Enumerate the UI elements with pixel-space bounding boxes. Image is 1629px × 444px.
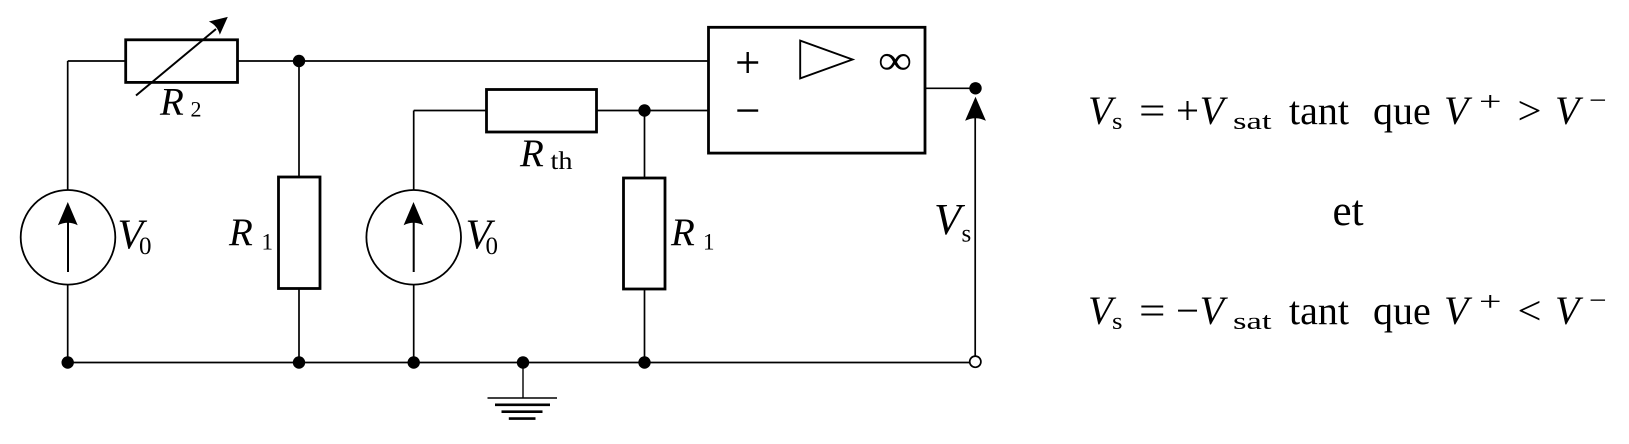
svg-text:tant: tant — [1289, 288, 1349, 333]
ground stub — [522, 363, 524, 399]
resistor R1 (right) body — [624, 178, 666, 289]
open terminal circle — [970, 356, 981, 367]
node bottom ground junction — [517, 356, 529, 368]
svg-text:et: et — [1333, 188, 1364, 235]
svg-text:V: V — [1200, 288, 1229, 333]
node bottom under source V0 middle — [408, 356, 420, 368]
svg-text:0: 0 — [139, 233, 152, 260]
current source V0 (middle) circle — [366, 190, 461, 285]
svg-text:<: < — [1518, 288, 1542, 333]
svg-text:s: s — [962, 221, 972, 248]
op-amp triangle — [800, 41, 852, 79]
svg-text:V: V — [1555, 288, 1584, 333]
equation line 1 — [1088, 85, 1607, 135]
current source V0 (left) circle — [21, 190, 116, 285]
svg-text:0: 0 — [486, 233, 499, 260]
wire R1 bottom to ground rail — [298, 289, 300, 363]
wire Rth to op-amp - input — [597, 110, 710, 112]
svg-text:sat: sat — [1233, 109, 1272, 135]
svg-text:V: V — [1555, 88, 1584, 133]
ground bar 4 — [509, 417, 536, 420]
resistor R2 wiper arrowhead — [209, 10, 233, 34]
node A (R2 / R1 junction) — [293, 55, 305, 67]
wire node A down to R1 — [298, 61, 300, 178]
svg-text:=: = — [1139, 288, 1166, 333]
svg-text:1: 1 — [703, 230, 715, 255]
svg-text:∞: ∞ — [878, 37, 912, 83]
svg-text:=: = — [1139, 88, 1166, 133]
current source V0 (left) arrow shaft — [67, 216, 69, 272]
svg-text:R: R — [228, 211, 253, 254]
svg-text:que: que — [1373, 88, 1431, 133]
op-amp + input sign — [737, 61, 758, 63]
node bottom under R1 right — [638, 356, 650, 368]
op-amp output wire — [925, 87, 976, 89]
svg-text:1: 1 — [262, 230, 274, 255]
node output — [969, 82, 981, 94]
wire middle source to Rth — [414, 110, 487, 112]
ground bar 3 — [502, 410, 543, 413]
Vs arrowhead — [965, 97, 986, 121]
svg-text:>: > — [1518, 88, 1542, 133]
resistor R2 wiper arrow shaft — [136, 29, 216, 96]
svg-text:−: − — [1589, 85, 1607, 115]
wire R1 right bottom to ground rail — [644, 289, 646, 363]
svg-text:+: + — [1176, 88, 1199, 133]
node bottom-left — [61, 356, 73, 368]
svg-text:+: + — [1479, 287, 1502, 317]
svg-text:R: R — [519, 132, 544, 175]
svg-text:V: V — [1444, 288, 1473, 333]
resistor R2 (variable) body — [126, 40, 238, 83]
wire node B down to R1 right — [644, 111, 646, 179]
wire source V0 (left) to bottom rail — [67, 285, 69, 363]
bottom ground rail — [68, 362, 970, 364]
svg-text:V: V — [1200, 88, 1229, 133]
Vs arrow shaft — [974, 116, 976, 356]
wire middle vertical down to source V0 middle — [413, 111, 415, 191]
op-amp U1 body — [709, 27, 926, 153]
node B (Rth / R1 right junction) — [638, 104, 650, 116]
svg-text:th: th — [551, 148, 574, 175]
svg-text:s: s — [1112, 109, 1123, 135]
svg-text:−: − — [1589, 285, 1607, 315]
svg-text:+: + — [1479, 87, 1502, 117]
current source V0 (middle) arrowhead — [404, 202, 424, 225]
resistor R1 (left) body — [279, 177, 321, 289]
current source V0 (middle) arrow shaft — [413, 216, 415, 272]
equation line 2 — [1088, 285, 1607, 335]
svg-text:R: R — [670, 211, 695, 254]
svg-text:tant: tant — [1289, 88, 1349, 133]
svg-text:s: s — [1112, 309, 1123, 335]
wire source V0 (middle) to bottom rail — [413, 285, 415, 363]
svg-text:que: que — [1373, 288, 1431, 333]
svg-text:V: V — [1444, 88, 1473, 133]
wire R2 to op-amp + input — [238, 60, 710, 62]
ground bar 1 — [488, 397, 558, 399]
svg-text:−: − — [1176, 288, 1199, 333]
svg-text:2: 2 — [191, 97, 202, 122]
wire top-left horizontal — [68, 60, 126, 62]
svg-text:sat: sat — [1233, 309, 1272, 335]
resistor Rth body — [487, 90, 597, 133]
wire left vertical down to source V0 — [67, 61, 69, 191]
ground bar 2 — [495, 403, 550, 406]
svg-text:R: R — [159, 81, 184, 124]
node bottom under R1 left — [293, 356, 305, 368]
op-amp - input sign — [737, 109, 758, 111]
current source V0 (left) arrowhead — [58, 202, 78, 225]
